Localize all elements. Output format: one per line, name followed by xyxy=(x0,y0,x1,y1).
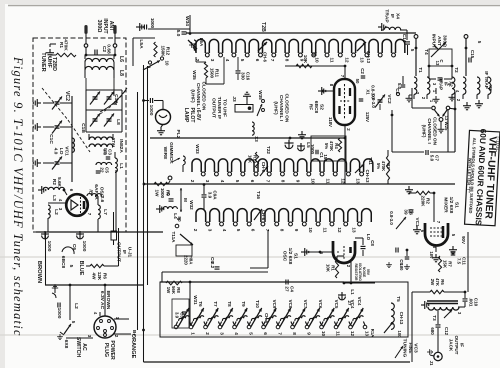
svg-text:1/2 6X8: 1/2 6X8 xyxy=(448,197,454,214)
svg-text:5: 5 xyxy=(248,332,253,335)
svg-text:C1B: C1B xyxy=(80,123,86,133)
svg-text:L2: L2 xyxy=(53,209,59,215)
svg-text:10K: 10K xyxy=(303,55,308,64)
svg-text:118V: 118V xyxy=(328,117,333,127)
svg-text:R2: R2 xyxy=(426,198,431,204)
svg-text:(UHF): (UHF) xyxy=(272,101,278,115)
svg-text:T11A: T11A xyxy=(171,231,176,243)
svg-text:7: 7 xyxy=(265,180,270,183)
svg-text:SWITCH: SWITCH xyxy=(75,337,81,357)
svg-text:13: 13 xyxy=(356,178,361,184)
svg-text:470K: 470K xyxy=(63,39,69,51)
svg-text:9: 9 xyxy=(294,229,299,232)
svg-text:100: 100 xyxy=(397,330,402,338)
svg-text:.001: .001 xyxy=(468,298,473,307)
svg-text:5: 5 xyxy=(240,59,245,62)
svg-text:CH-6: CH-6 xyxy=(264,313,269,323)
svg-text:5: 5 xyxy=(68,265,74,268)
svg-text:1W: 1W xyxy=(155,190,160,198)
svg-text:5%: 5% xyxy=(324,143,329,149)
svg-text:10: 10 xyxy=(310,178,315,184)
svg-text:BLUE: BLUE xyxy=(78,261,84,276)
svg-text:R12: R12 xyxy=(166,47,171,56)
svg-text:VC4: VC4 xyxy=(350,300,355,309)
svg-text:PL2: PL2 xyxy=(175,130,181,139)
svg-text:2: 2 xyxy=(190,180,195,183)
svg-text:R2: R2 xyxy=(52,179,57,185)
svg-text:C1C: C1C xyxy=(48,134,54,144)
svg-text:C16: C16 xyxy=(246,72,251,81)
svg-text:TUNER IF: TUNER IF xyxy=(216,97,222,119)
svg-text:B+: B+ xyxy=(131,330,137,337)
svg-text:W34: W34 xyxy=(184,16,190,26)
svg-text:11: 11 xyxy=(325,179,330,184)
svg-text:3.0: 3.0 xyxy=(102,149,107,156)
svg-text:R11: R11 xyxy=(215,69,220,78)
svg-text:CLOSED ON: CLOSED ON xyxy=(201,82,207,111)
svg-text:VC1: VC1 xyxy=(415,218,420,227)
svg-text:150K: 150K xyxy=(160,45,165,57)
svg-text:4: 4 xyxy=(234,332,239,335)
svg-text:10K: 10K xyxy=(325,264,330,273)
svg-text:TUNER: TUNER xyxy=(40,52,46,71)
svg-text:5.6K: 5.6K xyxy=(57,177,62,187)
svg-text:CH-13: CH-13 xyxy=(365,170,370,183)
svg-text:IF: IF xyxy=(389,14,395,18)
svg-text:680: 680 xyxy=(430,327,435,335)
svg-text:T8: T8 xyxy=(227,301,232,307)
svg-text:C15: C15 xyxy=(470,50,475,59)
svg-text:CH-13: CH-13 xyxy=(366,51,371,64)
svg-text:13: 13 xyxy=(435,61,440,66)
svg-text:T5: T5 xyxy=(396,296,401,302)
svg-text:2: 2 xyxy=(195,59,200,62)
svg-text:12: 12 xyxy=(350,331,355,337)
svg-text:T2BD: T2BD xyxy=(51,57,57,71)
svg-text:C6: C6 xyxy=(409,209,414,215)
svg-text:L5A: L5A xyxy=(138,39,144,49)
svg-text:C9A: C9A xyxy=(213,190,218,200)
svg-text:8: 8 xyxy=(280,180,285,183)
svg-text:OUTPUT: OUTPUT xyxy=(115,242,121,262)
svg-text:MIXER: MIXER xyxy=(442,197,448,213)
svg-text:ORANGE: ORANGE xyxy=(130,334,136,359)
svg-text:5.0: 5.0 xyxy=(429,155,434,162)
svg-text:TO UHF: TO UHF xyxy=(222,99,228,117)
svg-text:L2: L2 xyxy=(73,303,79,309)
svg-text:6: 6 xyxy=(255,59,260,62)
svg-text:5: 5 xyxy=(235,180,240,183)
svg-text:XTAL: XTAL xyxy=(111,138,116,149)
svg-text:6BC8: 6BC8 xyxy=(60,256,66,269)
svg-text:L6: L6 xyxy=(118,56,124,62)
svg-text:S1: S1 xyxy=(454,202,460,208)
svg-text:C7: C7 xyxy=(435,155,440,161)
svg-text:C5: C5 xyxy=(105,167,110,173)
svg-text:VC4: VC4 xyxy=(357,297,362,306)
svg-text:1/2 6X8: 1/2 6X8 xyxy=(287,248,293,265)
svg-text:11: 11 xyxy=(323,228,328,233)
svg-text:9: 9 xyxy=(306,332,311,335)
svg-text:5.0: 5.0 xyxy=(175,30,181,37)
svg-text:7.5: 7.5 xyxy=(456,258,461,265)
svg-text:2.2: 2.2 xyxy=(210,262,215,269)
svg-text:J1: J1 xyxy=(429,361,434,366)
svg-text:L1: L1 xyxy=(118,163,124,169)
svg-text:T9: T9 xyxy=(241,301,246,307)
svg-text:13: 13 xyxy=(359,57,364,63)
svg-text:VC2: VC2 xyxy=(64,91,70,101)
svg-text:M: M xyxy=(183,198,188,202)
svg-text:4: 4 xyxy=(225,59,230,62)
svg-text:T7: T7 xyxy=(213,301,218,307)
svg-text:L1: L1 xyxy=(350,289,355,295)
svg-text:CH-6: CH-6 xyxy=(261,210,266,221)
svg-text:6: 6 xyxy=(251,229,256,232)
svg-text:T22: T22 xyxy=(266,146,271,154)
svg-text:CHANNEL I: CHANNEL I xyxy=(426,118,432,144)
svg-text:2W: 2W xyxy=(430,279,435,286)
svg-text:PLUG: PLUG xyxy=(103,343,109,357)
svg-text:13: 13 xyxy=(351,227,356,233)
svg-text:C14: C14 xyxy=(402,34,407,43)
svg-text:R6: R6 xyxy=(102,273,107,279)
svg-text:3.9: 3.9 xyxy=(207,192,212,199)
svg-text:C6: C6 xyxy=(71,244,77,251)
svg-text:10: 10 xyxy=(315,57,320,63)
svg-text:10: 10 xyxy=(165,61,170,66)
svg-text:1000: 1000 xyxy=(150,18,155,29)
svg-text:3: 3 xyxy=(219,332,224,335)
svg-text:9: 9 xyxy=(295,180,300,183)
svg-text:125V: 125V xyxy=(365,112,370,122)
svg-text:T16: T16 xyxy=(256,191,261,199)
svg-text:S1: S1 xyxy=(293,253,299,259)
svg-text:2.6: 2.6 xyxy=(100,196,105,203)
svg-text:RF: RF xyxy=(307,104,313,111)
svg-text:220K: 220K xyxy=(420,195,425,207)
svg-text:0.8-3.0: 0.8-3.0 xyxy=(371,94,376,108)
svg-text:L8: L8 xyxy=(118,70,124,76)
svg-text:1W: 1W xyxy=(166,287,171,294)
svg-text:W35: W35 xyxy=(258,90,263,100)
svg-text:TRAP: TRAP xyxy=(438,78,443,90)
svg-text:W35: W35 xyxy=(192,70,197,80)
svg-text:C2: C2 xyxy=(360,68,365,74)
svg-text:3: 3 xyxy=(205,180,210,183)
svg-text:OSC: OSC xyxy=(281,251,287,262)
svg-text:X4: X4 xyxy=(395,13,401,19)
svg-text:10K: 10K xyxy=(247,155,252,164)
svg-text:8: 8 xyxy=(279,229,284,232)
svg-text:7: 7 xyxy=(270,59,275,62)
svg-text:OUTPUT: OUTPUT xyxy=(210,98,216,118)
svg-text:39: 39 xyxy=(403,209,408,215)
svg-text:2: 2 xyxy=(193,229,198,232)
svg-text:T3: T3 xyxy=(432,315,437,321)
svg-text:1500: 1500 xyxy=(209,68,214,79)
svg-text:CLOSED ON: CLOSED ON xyxy=(284,94,290,123)
svg-text:1000: 1000 xyxy=(148,105,154,116)
svg-text:GIMMICK: GIMMICK xyxy=(168,142,174,164)
svg-text:12: 12 xyxy=(345,57,350,63)
svg-text:2: 2 xyxy=(205,332,210,335)
svg-text:12K: 12K xyxy=(97,272,102,281)
svg-text:6BC8: 6BC8 xyxy=(313,101,319,114)
svg-text:IN82A: IN82A xyxy=(118,139,124,153)
svg-text:18V: 18V xyxy=(429,251,434,259)
svg-text:10: 10 xyxy=(308,227,313,233)
svg-text:VC7: VC7 xyxy=(303,300,308,309)
svg-text:CLOSED ON: CLOSED ON xyxy=(431,117,437,146)
svg-text:OUTPUT: OUTPUT xyxy=(454,336,459,355)
svg-text:300Ω: 300Ω xyxy=(96,20,102,33)
svg-text:T2: T2 xyxy=(454,67,459,73)
svg-text:6.3V AC: 6.3V AC xyxy=(99,291,105,310)
svg-text:3.9: 3.9 xyxy=(174,312,179,319)
svg-text:X1: X1 xyxy=(365,89,370,95)
svg-text:IF: IF xyxy=(121,250,127,254)
svg-text:4.0: 4.0 xyxy=(52,148,58,155)
svg-text:BROWN: BROWN xyxy=(105,291,111,310)
svg-text:6: 6 xyxy=(250,180,255,183)
svg-text:VC2: VC2 xyxy=(386,94,392,104)
svg-text:C10: C10 xyxy=(474,298,479,307)
svg-text:5: 5 xyxy=(236,229,241,232)
svg-text:S2: S2 xyxy=(319,104,325,110)
svg-text:U-J1: U-J1 xyxy=(127,247,133,258)
svg-text:50: 50 xyxy=(355,79,360,84)
svg-text:4W: 4W xyxy=(92,273,97,281)
svg-text:C12: C12 xyxy=(444,327,449,336)
svg-text:W31: W31 xyxy=(193,295,198,305)
svg-text:CH-13: CH-13 xyxy=(399,312,404,325)
svg-text:15K: 15K xyxy=(442,260,447,269)
svg-text:11: 11 xyxy=(330,58,335,63)
svg-text:1000: 1000 xyxy=(81,241,87,252)
svg-text:180: 180 xyxy=(399,264,404,272)
svg-text:W32: W32 xyxy=(189,200,194,210)
svg-text:CH-6: CH-6 xyxy=(263,52,268,62)
svg-text:90V: 90V xyxy=(461,236,466,244)
svg-text:2220: 2220 xyxy=(183,255,188,265)
svg-text:L3: L3 xyxy=(51,195,57,201)
svg-text:27: 27 xyxy=(284,286,289,292)
svg-text:LO: LO xyxy=(58,148,64,155)
svg-text:Figure 9. T-101C VHF/UHF Tune: Figure 9. T-101C VHF/UHF Tuner, schemati… xyxy=(11,56,25,337)
svg-text:7: 7 xyxy=(277,332,282,335)
svg-text:12: 12 xyxy=(337,227,342,233)
svg-text:LAMP: LAMP xyxy=(183,108,189,123)
svg-text:8: 8 xyxy=(292,332,297,335)
svg-text:W33: W33 xyxy=(195,144,200,154)
svg-text:VC5: VC5 xyxy=(334,300,339,309)
svg-text:CHANNEL I: CHANNEL I xyxy=(195,83,201,110)
svg-text:L8: L8 xyxy=(115,119,121,125)
svg-text:0.68: 0.68 xyxy=(106,44,112,54)
svg-text:C4: C4 xyxy=(290,286,295,292)
svg-text:JACK: JACK xyxy=(449,339,454,352)
svg-text:(UHF): (UHF) xyxy=(421,125,427,138)
svg-text:VC8: VC8 xyxy=(288,300,293,309)
svg-text:IF: IF xyxy=(459,343,464,347)
svg-text:3: 3 xyxy=(207,229,212,232)
svg-text:5%: 5% xyxy=(376,163,381,169)
svg-text:T1: T1 xyxy=(418,67,423,73)
svg-text:1000: 1000 xyxy=(46,241,52,252)
svg-text:22: 22 xyxy=(99,167,104,173)
svg-text:10: 10 xyxy=(321,331,326,337)
svg-text:R1A: R1A xyxy=(370,329,375,337)
svg-text:1000: 1000 xyxy=(160,188,165,199)
svg-text:WIRE: WIRE xyxy=(162,147,168,160)
svg-text:VC6: VC6 xyxy=(318,300,323,309)
svg-text:1: 1 xyxy=(190,332,195,335)
svg-text:0.8-3.0: 0.8-3.0 xyxy=(389,211,394,225)
svg-text:C8: C8 xyxy=(370,240,375,246)
svg-text:1000: 1000 xyxy=(56,308,62,319)
svg-text:T10: T10 xyxy=(255,300,260,308)
svg-text:T2B: T2B xyxy=(260,22,266,32)
svg-text:C3: C3 xyxy=(108,149,113,155)
svg-text:T11: T11 xyxy=(368,157,373,165)
svg-text:TRAP: TRAP xyxy=(383,9,389,23)
svg-text:T6: T6 xyxy=(198,301,203,307)
svg-text:ANT: ANT xyxy=(436,36,442,46)
svg-text:(UHF): (UHF) xyxy=(189,89,195,103)
svg-text:11: 11 xyxy=(335,331,340,336)
svg-text:330: 330 xyxy=(240,72,245,80)
svg-text:6X8: 6X8 xyxy=(63,340,69,349)
svg-text:VC1: VC1 xyxy=(64,146,70,156)
svg-text:X3: X3 xyxy=(254,136,259,142)
svg-text:13: 13 xyxy=(364,331,369,337)
svg-text:M: M xyxy=(112,101,118,105)
svg-text:L7: L7 xyxy=(102,209,108,215)
svg-text:BROWN: BROWN xyxy=(36,261,42,283)
svg-text:RESISTOR: RESISTOR xyxy=(354,264,358,282)
svg-text:12: 12 xyxy=(341,178,346,184)
svg-text:6: 6 xyxy=(263,332,268,335)
svg-text:4: 4 xyxy=(222,229,227,232)
svg-text:4: 4 xyxy=(220,180,225,183)
svg-text:8: 8 xyxy=(285,59,290,62)
svg-text:J3: J3 xyxy=(231,96,237,102)
svg-text:CHANNEL I: CHANNEL I xyxy=(278,95,284,122)
svg-text:VC9: VC9 xyxy=(272,300,277,309)
svg-text:3: 3 xyxy=(210,59,215,62)
svg-text:VC3: VC3 xyxy=(413,343,419,353)
svg-text:T4: T4 xyxy=(424,49,429,55)
